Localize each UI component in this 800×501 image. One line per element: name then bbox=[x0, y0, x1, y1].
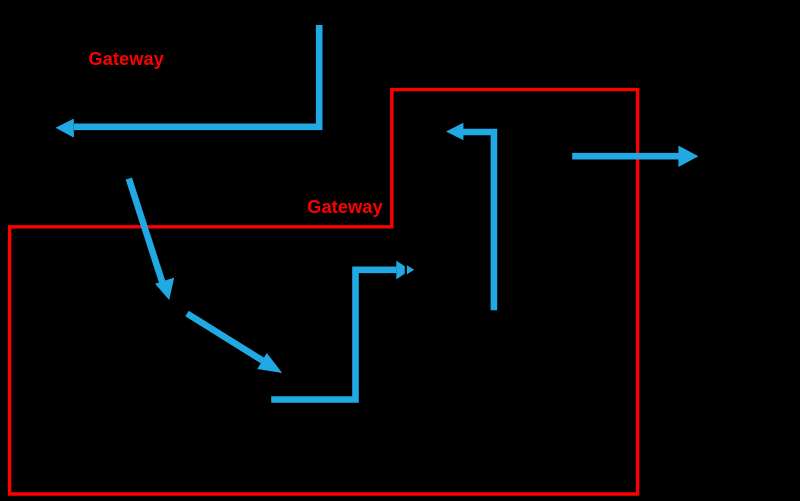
arrow F head (right) bbox=[678, 146, 698, 167]
arrow E shaft (up then left) bbox=[463, 132, 494, 310]
arrow A head (left) bbox=[56, 119, 74, 138]
arrow B shaft (diagonal steep) bbox=[129, 179, 164, 287]
arrow B head (down) bbox=[155, 278, 174, 300]
arrow D head large (right) bbox=[396, 261, 405, 280]
arrow C head (down-right) bbox=[257, 353, 282, 373]
svg-text:Gateway: Gateway bbox=[307, 197, 383, 217]
arrow E head (left) bbox=[446, 123, 463, 141]
arrow D shaft (right, up, right) bbox=[271, 270, 396, 400]
arrow A shaft (down then left) bbox=[74, 25, 319, 127]
svg-text:Gateway: Gateway bbox=[88, 49, 163, 69]
arrow F shaft (right) bbox=[572, 153, 680, 160]
arrow D head small (right) bbox=[407, 265, 414, 274]
arrow C shaft (diagonal shallow) bbox=[187, 314, 263, 361]
network boundary (red step rectangle) bbox=[10, 90, 638, 494]
